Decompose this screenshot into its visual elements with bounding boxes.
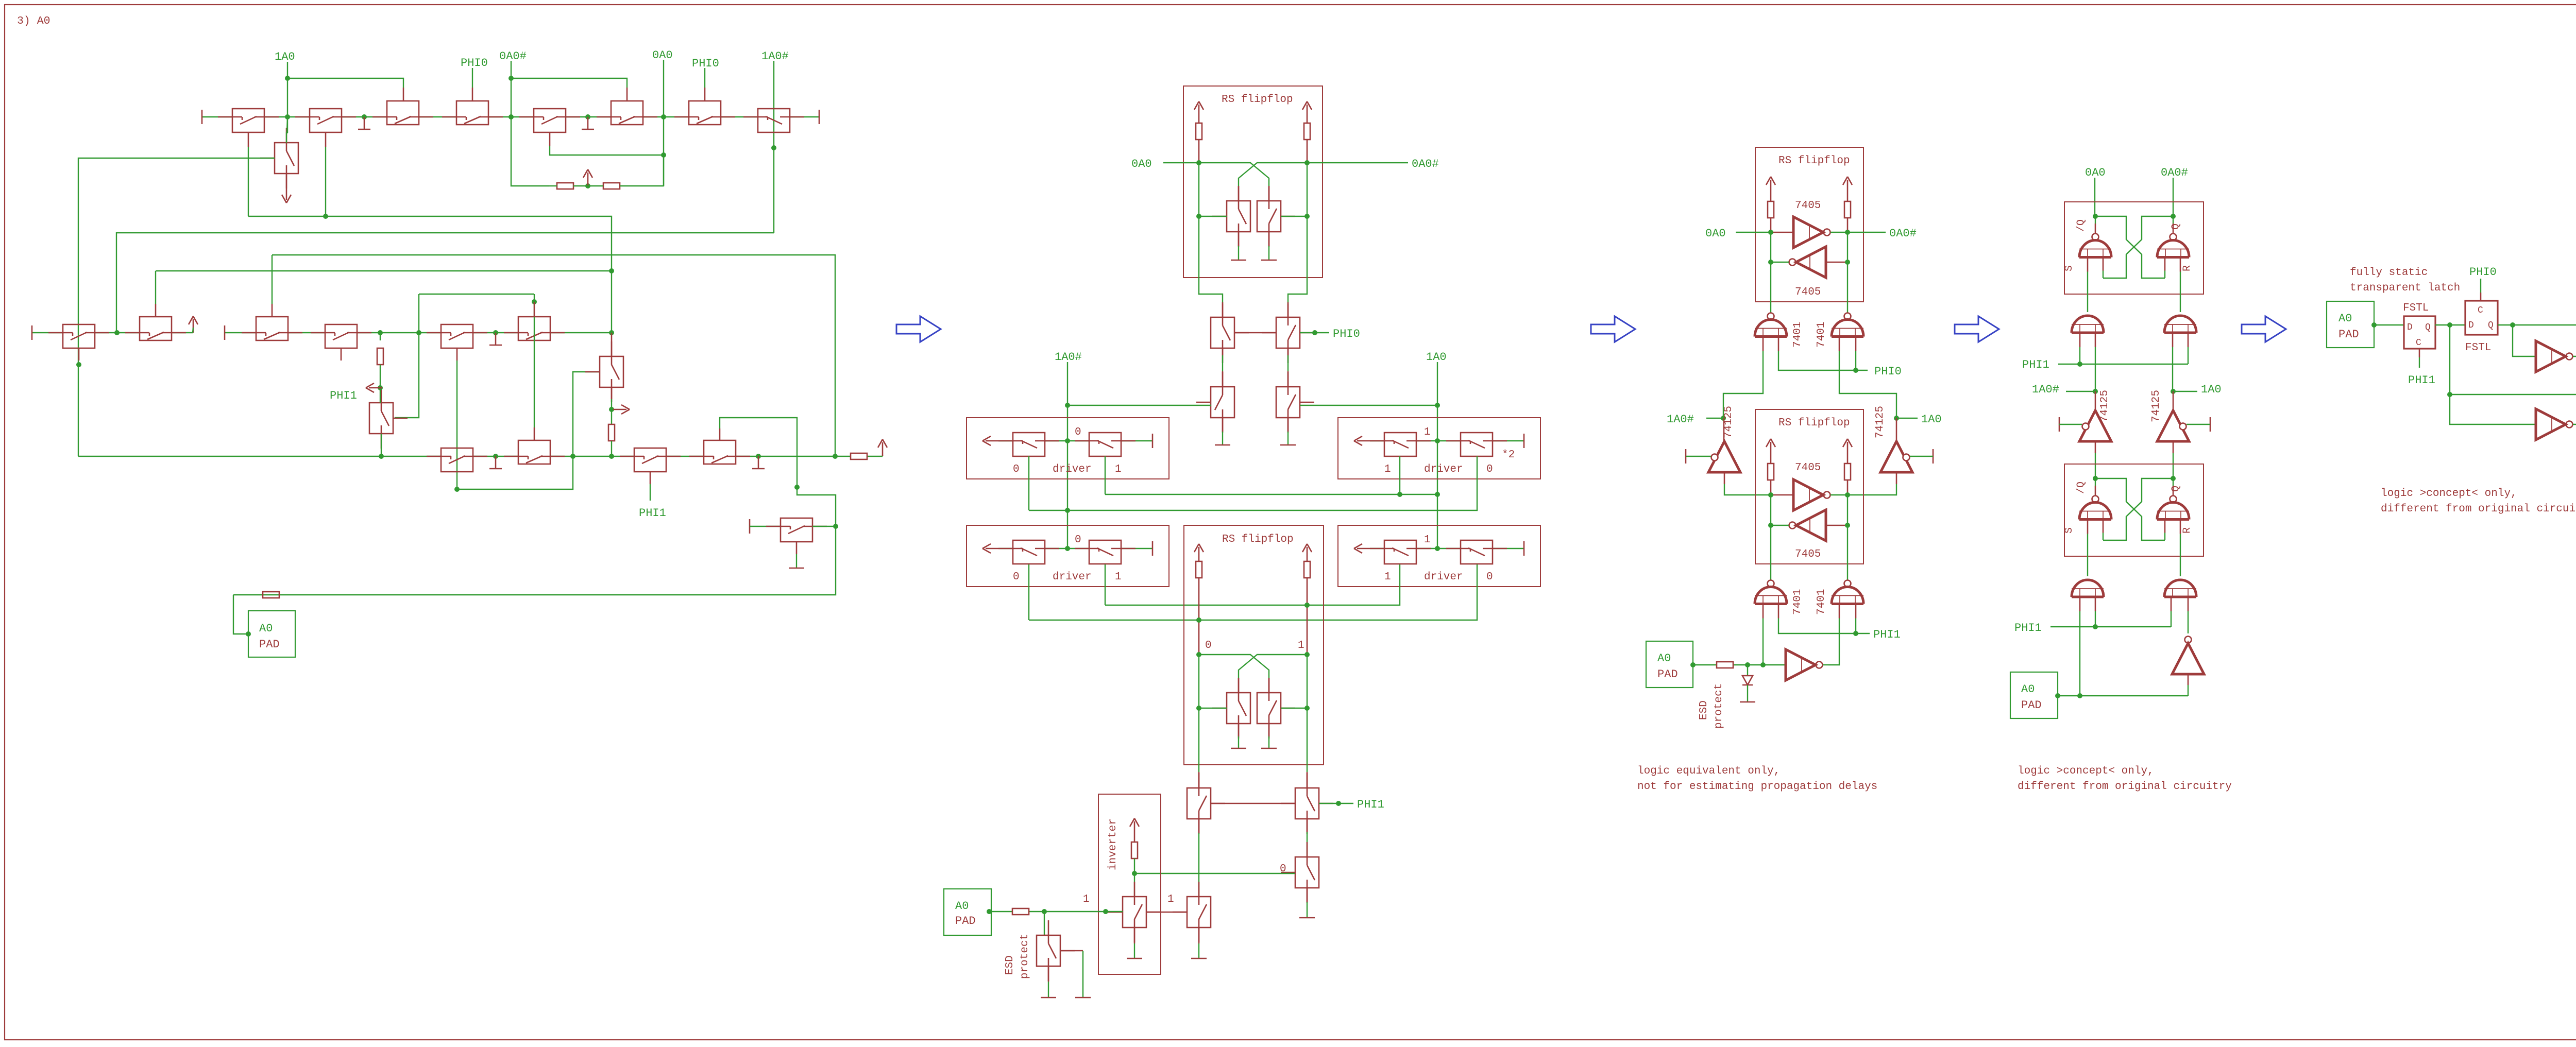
svg-text:7401: 7401 bbox=[1816, 589, 1827, 615]
transistor Q9 vertical bbox=[275, 143, 298, 174]
svg-text:A0: A0 bbox=[2338, 312, 2352, 325]
junction FF2 left n bbox=[1196, 652, 1201, 657]
svg-text:Q: Q bbox=[2425, 322, 2431, 333]
junction bus b1/1A0 bbox=[1435, 492, 1440, 497]
svg-text:PHI0: PHI0 bbox=[1333, 328, 1360, 340]
supply arrow inverter bbox=[1134, 821, 1136, 835]
wire PHI0 stub to Q7 bbox=[704, 68, 705, 88]
wire PHI1 label stub bbox=[1319, 803, 1353, 804]
wire long net L3 bbox=[272, 255, 835, 456]
junction left y1 bbox=[1768, 492, 1773, 497]
transistor Q33 inverter bbox=[1123, 897, 1146, 928]
junction right y2 bbox=[1845, 260, 1850, 265]
junction rowC n8 bbox=[756, 454, 761, 459]
arrow panel3-4 bbox=[1955, 316, 1999, 342]
junction rowB n6 L1 end bbox=[609, 330, 614, 335]
wire Q36 left bbox=[750, 526, 781, 527]
wire long net L0 bbox=[156, 270, 612, 271]
junction FF1 left out bbox=[1196, 160, 1201, 165]
svg-text:PHI1: PHI1 bbox=[639, 507, 666, 520]
svg-text:7401: 7401 bbox=[1816, 322, 1827, 348]
wire PHI0 stub to Q4 bbox=[472, 68, 473, 88]
terminal open pin left rowA bbox=[201, 110, 203, 124]
supply stub rowA n2 bbox=[587, 117, 589, 129]
svg-text:1: 1 bbox=[1424, 534, 1431, 546]
wire FSTL2 clock bbox=[2480, 293, 2482, 301]
driver block outline bbox=[1338, 418, 1540, 479]
nand 7401 g3 bbox=[1768, 580, 1774, 587]
wire FSTL2 out bbox=[2498, 324, 2576, 325]
wire inverter out p3 bbox=[1823, 664, 1828, 665]
svg-text:PHI1: PHI1 bbox=[1873, 628, 1901, 641]
junction latch left bbox=[2093, 214, 2098, 219]
svg-text:different from original circui: different from original circuitry bbox=[2018, 781, 2232, 793]
transistor Q29 vertical FF2 bbox=[1257, 693, 1281, 724]
junction 1A0# p3 bbox=[1721, 416, 1726, 421]
junction FF2 right bus bbox=[1304, 603, 1310, 608]
latch FSTL1 box bbox=[2404, 316, 2435, 349]
wire bus b2 bbox=[1028, 456, 1029, 510]
svg-text:0A0#: 0A0# bbox=[1412, 158, 1439, 170]
wire FF2 left side bbox=[1198, 655, 1199, 708]
junction driver1/1A0# bbox=[1065, 438, 1070, 443]
transistor Q1 bbox=[232, 109, 264, 132]
transistor Q11 bbox=[140, 317, 172, 340]
supply stub rowA n1 bbox=[364, 117, 365, 129]
inverter 7405 upper bbox=[1793, 479, 1823, 510]
wire 1A0# rail bbox=[1067, 362, 1068, 548]
pad A0 PAD box p2 bbox=[944, 889, 991, 935]
junction rowB n5 bbox=[493, 330, 498, 335]
junction 1A0# a bbox=[1065, 403, 1070, 408]
svg-text:74125: 74125 bbox=[1874, 406, 1886, 438]
svg-text:7405: 7405 bbox=[1795, 200, 1821, 212]
svg-text:1: 1 bbox=[1115, 464, 1122, 475]
supply stub rowC n8 bbox=[758, 456, 759, 469]
supply stub rowB n5 bbox=[495, 333, 497, 345]
supply stub rowC n7 bbox=[495, 456, 497, 469]
svg-text:0: 0 bbox=[1075, 534, 1081, 546]
svg-text:PHI1: PHI1 bbox=[2408, 374, 2435, 387]
junction pad pin p3 bbox=[1690, 662, 1696, 667]
junction 1A0 p4 bbox=[2171, 389, 2176, 394]
svg-text:logic equivalent only,: logic equivalent only, bbox=[1637, 765, 1780, 777]
wire rowB bbox=[32, 332, 63, 333]
arrow terminal up rowB bbox=[193, 319, 194, 333]
svg-text:74125: 74125 bbox=[2099, 390, 2111, 422]
wire Q17 bottom to rowC bbox=[381, 434, 382, 456]
driver block outline bbox=[1338, 525, 1540, 587]
svg-text:S: S bbox=[2063, 265, 2075, 271]
svg-text:PHI0: PHI0 bbox=[2469, 266, 2497, 279]
svg-text:C: C bbox=[2478, 305, 2483, 316]
svg-text:/Q: /Q bbox=[2075, 482, 2087, 494]
svg-text:PHI1: PHI1 bbox=[330, 389, 357, 402]
wire PHI0 pair link bbox=[1234, 332, 1276, 334]
wire Q9 gate run bbox=[78, 158, 275, 456]
terminal 74125 right enable bbox=[1933, 449, 1934, 464]
wire 0A0# p3 bbox=[1848, 232, 1886, 233]
wire Q33-Q34 link bbox=[1146, 912, 1187, 913]
wire PHI0 label stub bbox=[1300, 332, 1329, 333]
wire FSTL1-FSTL2 bbox=[2435, 324, 2465, 325]
wire driver bbox=[1370, 440, 1384, 441]
wire g4 in2 bbox=[1855, 604, 1857, 619]
transistor driver B bbox=[1461, 540, 1493, 564]
wire g2 in1 bbox=[1839, 337, 1840, 351]
transistor Q31 PHI1 switch bbox=[1295, 788, 1319, 819]
junction 1A0 a bbox=[1435, 403, 1440, 408]
wire Q5 gate to 0A0 node bbox=[549, 132, 551, 146]
svg-text:0: 0 bbox=[1075, 426, 1081, 438]
svg-text:0A0: 0A0 bbox=[1131, 158, 1152, 170]
junction Q2 gate/L1 bbox=[323, 214, 328, 219]
transistor Q15 bbox=[518, 317, 550, 340]
arrow panel2-3 bbox=[1591, 316, 1635, 342]
junction latch left bbox=[2093, 476, 2098, 481]
svg-text:A0: A0 bbox=[2021, 683, 2035, 696]
wire g3 in2 bbox=[1778, 604, 1780, 619]
resistor inverter bbox=[1131, 842, 1138, 859]
wire right rail bbox=[1847, 232, 1848, 262]
junction 1A0/rowA bbox=[285, 114, 290, 119]
wire rail2 to nand4 bbox=[1847, 525, 1848, 580]
junction rowC/Q17 bbox=[379, 454, 384, 459]
svg-text:1: 1 bbox=[1384, 464, 1391, 475]
wire latch2 R to and4 bbox=[2180, 534, 2181, 577]
svg-text:0A0: 0A0 bbox=[652, 49, 673, 62]
wire FF2 left rail to PHI1 switch bbox=[1198, 708, 1199, 772]
inverter 7405 upper bbox=[1793, 217, 1823, 248]
svg-text:1: 1 bbox=[1384, 571, 1391, 583]
terminal open pin Q36 bbox=[749, 519, 751, 534]
svg-text:74125: 74125 bbox=[1723, 406, 1735, 438]
junction pad n2 bbox=[1103, 909, 1108, 914]
arrow panel4-5 bbox=[2242, 316, 2286, 342]
svg-text:74125: 74125 bbox=[2150, 390, 2162, 422]
svg-text:PHI0: PHI0 bbox=[692, 57, 719, 70]
wire buf to latch2 right bbox=[2173, 441, 2174, 453]
transistor Q10 bbox=[63, 324, 95, 348]
arrow terminal left driver bbox=[986, 548, 999, 550]
svg-text:logic >concept< only,: logic >concept< only, bbox=[2381, 488, 2517, 500]
driver block outline bbox=[967, 418, 1169, 479]
junction pad pin p4 bbox=[2055, 693, 2060, 698]
svg-text:driver: driver bbox=[1424, 571, 1463, 583]
svg-text:R: R bbox=[2181, 265, 2193, 271]
wire 0A0# rail bbox=[511, 61, 512, 117]
wire 1A0# p3 bbox=[1706, 418, 1723, 419]
wire FF1 right side bbox=[1307, 163, 1308, 216]
wire FF1 right rail down bbox=[1288, 216, 1307, 304]
resistor R4 bbox=[377, 348, 383, 365]
wire L3 to Q12 gate bbox=[272, 255, 273, 304]
svg-text:A0: A0 bbox=[1657, 652, 1671, 665]
wire Q16 bottom bbox=[611, 387, 613, 399]
transistor Q12 bbox=[256, 317, 288, 340]
svg-text:ESD: ESD bbox=[1004, 955, 1016, 975]
arrow terminal left driver bbox=[986, 440, 999, 442]
RS flipflop 7405 outline bbox=[1755, 409, 1863, 564]
junction PHI1 bbox=[1336, 801, 1341, 806]
svg-text:RS flipflop: RS flipflop bbox=[1778, 417, 1850, 429]
wire rowA bbox=[202, 116, 232, 117]
inverter 7405 lower bbox=[1796, 247, 1826, 278]
supply arrow right bbox=[1847, 442, 1849, 455]
wire latch inputs bbox=[2087, 258, 2089, 272]
latch outline bbox=[2064, 202, 2204, 294]
wire bus b1 bbox=[1105, 456, 1106, 494]
transistor Q32 bbox=[1295, 857, 1319, 888]
resistor FF2 left bbox=[1196, 561, 1202, 578]
svg-text:different from original circui: different from original circuitry bbox=[2381, 503, 2576, 515]
svg-text:PHI1: PHI1 bbox=[2014, 622, 2042, 634]
svg-text:7405: 7405 bbox=[1795, 462, 1821, 474]
junction Q36/loop bbox=[833, 524, 838, 529]
wire 1A0# to Q26 bbox=[1067, 405, 1211, 406]
wire long net L2 1A0# bbox=[116, 233, 774, 333]
wire bus b3 bbox=[1105, 564, 1106, 605]
driver block outline bbox=[967, 525, 1169, 587]
junction 0A0#/rowA bbox=[509, 114, 514, 119]
wire cross A bbox=[2095, 216, 2165, 278]
junction bus b4/FF2 bbox=[1196, 617, 1201, 623]
arrow terminal left driver bbox=[1357, 548, 1370, 550]
wire 1A0# out bbox=[2573, 424, 2576, 425]
svg-text:PAD: PAD bbox=[1657, 668, 1678, 681]
junction rowA n2 bbox=[585, 114, 590, 119]
transistor driver A bbox=[1013, 433, 1045, 456]
and gate a2 bbox=[2164, 316, 2196, 333]
resistor R8 p3 bbox=[1717, 662, 1733, 668]
wire FF2 right side bbox=[1307, 655, 1308, 708]
junction FF1 right mid bbox=[1304, 214, 1310, 219]
svg-text:1A0#: 1A0# bbox=[761, 50, 789, 63]
wire Q17 chain from rowB bbox=[380, 333, 381, 340]
svg-text:RS flipflop: RS flipflop bbox=[1222, 94, 1293, 106]
svg-text:RS flipflop: RS flipflop bbox=[1778, 155, 1850, 167]
transistor Q36 bbox=[781, 518, 812, 542]
svg-text:fully static: fully static bbox=[2350, 267, 2428, 279]
junction rowB n4 bbox=[416, 330, 421, 335]
nand latch g-right bbox=[2173, 216, 2174, 224]
junction 0A0/rowA bbox=[661, 114, 666, 119]
transistor Q2 bbox=[310, 109, 342, 132]
terminal open pin driver bbox=[1523, 434, 1525, 448]
wire latch2 S to and3 bbox=[2087, 534, 2088, 577]
svg-text:R: R bbox=[2181, 527, 2193, 534]
wire Q15 gate and L2gate rail bbox=[534, 294, 535, 427]
wire 1A0 rail bbox=[287, 62, 288, 133]
wire driver2A gate bbox=[1399, 456, 1400, 494]
transistor driver B bbox=[1089, 540, 1121, 564]
wire 0A0 p3 bbox=[1736, 232, 1771, 233]
wire g1 in1 bbox=[1762, 337, 1764, 351]
wire inverter pullup bbox=[1134, 859, 1135, 897]
junction driver4/1A0 bbox=[1435, 546, 1440, 551]
svg-text:PHI0: PHI0 bbox=[461, 57, 488, 70]
wire R4 to PHI1 node bbox=[380, 365, 381, 403]
svg-text:7401: 7401 bbox=[1792, 322, 1804, 348]
svg-text:1A0: 1A0 bbox=[275, 50, 295, 63]
transistor Q22 vertical FF1 bbox=[1227, 201, 1250, 232]
junction FF2 left mid bbox=[1196, 706, 1201, 711]
wire 1A0 gate run to Q3 bbox=[287, 78, 403, 88]
svg-text:logic >concept< only,: logic >concept< only, bbox=[2018, 765, 2154, 777]
terminal open pin driver bbox=[1523, 541, 1525, 556]
transistor Q3 bbox=[387, 101, 419, 125]
junction latch right bbox=[2171, 214, 2176, 219]
arrow terminal left PHI1 bbox=[369, 387, 382, 389]
wire R3 to rowC bbox=[611, 441, 612, 456]
wire 1A0 branch bbox=[2450, 325, 2536, 424]
wire Q14 gate run to rowC bbox=[457, 372, 600, 489]
resistor right bbox=[1844, 464, 1851, 480]
wire PHI1 p4a bbox=[2058, 364, 2188, 365]
wire bus b4 bbox=[1028, 564, 1029, 620]
ground Q22 bbox=[1238, 232, 1240, 246]
wire g1 in2 bbox=[1778, 337, 1780, 351]
junction 1A0 branch bbox=[2447, 392, 2452, 397]
svg-text:0A0: 0A0 bbox=[1705, 227, 1726, 240]
svg-text:1A0: 1A0 bbox=[1921, 413, 1942, 426]
wire 1A0 rail bbox=[1437, 362, 1438, 548]
junction FSTL mid bbox=[2447, 322, 2452, 328]
wire Q2 gate bbox=[325, 132, 327, 147]
junction Q21 loop bbox=[794, 485, 800, 490]
supply arrow right bbox=[1847, 180, 1849, 193]
wire Q25-Q27 bbox=[1287, 348, 1289, 355]
supply arrow left bbox=[1770, 442, 1772, 455]
supply arrow FF2 right bbox=[1307, 547, 1308, 560]
svg-text:D: D bbox=[2407, 322, 2413, 333]
junction 0A0 node bbox=[661, 152, 666, 158]
svg-text:transparent latch: transparent latch bbox=[2350, 282, 2460, 294]
svg-text:A0: A0 bbox=[955, 900, 969, 913]
junction PHI0 p3 bbox=[1853, 368, 1858, 373]
inverter p5 b bbox=[2536, 409, 2566, 440]
junction 1A0 p3 bbox=[1894, 416, 1899, 421]
junction pad pin p2 bbox=[987, 909, 992, 914]
wire FF2 cross left bbox=[1199, 655, 1269, 678]
buffer 74125 p4 right bbox=[2157, 410, 2189, 441]
wire rail to nand1 bbox=[1770, 262, 1771, 313]
svg-text:3) A0: 3) A0 bbox=[17, 15, 50, 27]
svg-text:0A0: 0A0 bbox=[2085, 166, 2106, 179]
svg-text:C: C bbox=[2416, 338, 2421, 348]
transistor Q18 bbox=[441, 448, 473, 472]
svg-text:0A0#: 0A0# bbox=[2161, 166, 2188, 179]
arrow terminal right at Q16 bbox=[613, 409, 626, 410]
wire Q30 to inverter bbox=[1198, 819, 1200, 833]
wire long net L1 bbox=[248, 216, 612, 333]
inverter p5 a bbox=[2536, 341, 2566, 372]
wire PHI1 p4b bbox=[2050, 626, 2171, 627]
svg-text:D: D bbox=[2468, 320, 2474, 331]
transistor driver A bbox=[1384, 433, 1416, 456]
transistor Q16 vertical bbox=[600, 356, 623, 387]
svg-text:1: 1 bbox=[1115, 571, 1122, 583]
latch outline bbox=[2064, 464, 2204, 556]
svg-text:A0: A0 bbox=[259, 622, 273, 635]
transistor Q7 bbox=[689, 101, 721, 125]
transistor driver B bbox=[1089, 433, 1121, 456]
voltage divider resistor R1 bbox=[557, 183, 573, 189]
wire pad line to inverter bbox=[989, 911, 1013, 912]
buffer 74125 p4 left bbox=[2079, 410, 2111, 441]
wire rowC bbox=[78, 456, 441, 457]
transistor Q13 bbox=[325, 324, 357, 348]
junction left y2 bbox=[1768, 523, 1773, 528]
wire Q13 gate chain bbox=[341, 348, 342, 361]
wire 0A0# out of FF1 bbox=[1307, 162, 1408, 163]
svg-text:Q: Q bbox=[2488, 320, 2494, 331]
wire 0A0 down bbox=[2094, 178, 2095, 216]
ground Q33 bbox=[1134, 928, 1136, 943]
resistor right bbox=[1844, 201, 1851, 218]
wire driver bbox=[999, 440, 1013, 441]
junction bus b1/driver2A bbox=[1397, 492, 1402, 497]
junction L2/rowB bbox=[114, 330, 120, 335]
junction driver2/1A0 bbox=[1435, 438, 1440, 443]
buffer 74125 left bbox=[1708, 441, 1740, 472]
wire a1 inputs bbox=[2079, 333, 2081, 347]
wire ESD branch bbox=[1044, 912, 1045, 935]
svg-text:S: S bbox=[2063, 527, 2075, 534]
resistor R6 pad series bbox=[263, 592, 279, 598]
wire a4 inputs bbox=[2171, 597, 2172, 611]
svg-text:1A0: 1A0 bbox=[1426, 351, 1447, 364]
buffer 74125 right bbox=[1880, 441, 1912, 472]
terminal p4 right enable bbox=[2210, 417, 2211, 432]
wire FF1 cross right bbox=[1239, 163, 1307, 186]
svg-text:1: 1 bbox=[1424, 426, 1431, 438]
wire 1A0 out bbox=[2450, 394, 2576, 395]
wire rail2 to nand3 bbox=[1770, 525, 1771, 580]
junction FF2 right n bbox=[1304, 652, 1310, 657]
junction rowC/L3 bbox=[833, 454, 838, 459]
wire pad riser bbox=[233, 595, 248, 634]
svg-text:0A0#: 0A0# bbox=[1889, 227, 1917, 240]
junction left y2 bbox=[1768, 260, 1773, 265]
svg-text:Q: Q bbox=[2170, 224, 2182, 230]
wire 0A0# divider feed bbox=[511, 117, 549, 186]
wire a3 inputs bbox=[2079, 597, 2081, 611]
latch FSTL2 box bbox=[2465, 301, 2498, 335]
transistor driver B bbox=[1461, 433, 1493, 456]
junction bus b3/FF2 bbox=[1304, 603, 1310, 608]
svg-text:0: 0 bbox=[1013, 464, 1020, 475]
svg-text:driver: driver bbox=[1053, 464, 1092, 475]
arrow terminal down below Q9 bbox=[286, 186, 287, 200]
pad A0 PAD box p4 bbox=[2010, 672, 2058, 718]
RS flipflop 1 outline bbox=[1183, 86, 1323, 278]
junction rowB n3 bbox=[378, 330, 383, 335]
terminal p4 left enable bbox=[2059, 417, 2060, 432]
wire Q20 gate to PHI1 bbox=[650, 472, 651, 484]
transistor Q30 PHI1 switch bbox=[1187, 788, 1211, 819]
terminal open pin rowB mid bbox=[224, 325, 226, 340]
transistor Q34 bbox=[1187, 897, 1211, 928]
wire buf to latch2 left bbox=[2095, 441, 2096, 453]
svg-text:PHI0: PHI0 bbox=[1874, 365, 1902, 378]
svg-text:1A0#: 1A0# bbox=[1055, 351, 1082, 364]
transistor Q21 bbox=[704, 440, 736, 464]
svg-text:PAD: PAD bbox=[955, 915, 976, 928]
svg-text:inverter: inverter bbox=[1107, 818, 1119, 870]
wire 0A0# down bbox=[2173, 178, 2174, 216]
svg-text:not for estimating propagation: not for estimating propagation delays bbox=[1637, 781, 1877, 793]
